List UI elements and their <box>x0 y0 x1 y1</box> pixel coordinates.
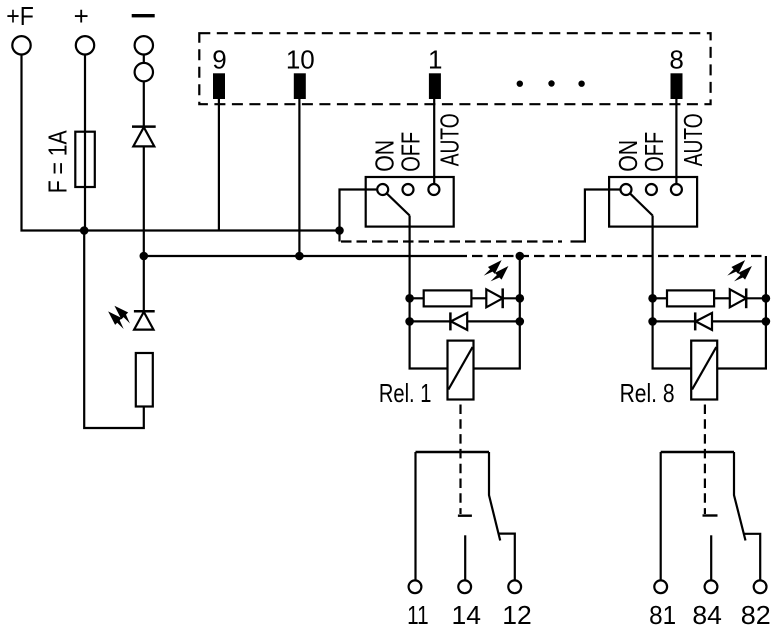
wire pin 8 to AUTO contact <box>675 99 677 186</box>
svg-text:81: 81 <box>649 600 676 630</box>
node + terminal label <box>74 1 89 31</box>
wire switch S2 feed from dashed rail <box>571 190 620 242</box>
contact seat and wire 12 <box>499 534 515 581</box>
relay coil K8 <box>691 341 717 400</box>
node - terminal label (minus bar) <box>132 14 155 17</box>
diode D4 freewheel Rel8 <box>695 312 712 330</box>
pin 9 label <box>212 45 226 75</box>
switch S2 box <box>609 177 697 227</box>
wire resistor R2 to LED <box>471 297 486 299</box>
pin 9 <box>213 73 225 99</box>
wire Rel8 left branch down to coil <box>653 298 692 368</box>
label OFF S2 <box>639 132 669 172</box>
switch S1 contact circle ON <box>377 184 388 195</box>
resistor R2 <box>424 290 472 306</box>
svg-text:12: 12 <box>502 600 532 630</box>
junction dot Rel1 top on -rail <box>516 252 525 261</box>
contact group Rel1 top bar <box>416 451 490 453</box>
diode D1 reverse-polarity protection <box>132 127 156 147</box>
node +F terminal label <box>6 1 34 31</box>
terminal circle 11 <box>409 580 422 593</box>
label 14 <box>452 600 482 630</box>
label 12 <box>502 600 532 630</box>
wire LED D6 to right node <box>503 297 520 299</box>
wire resistor bottom loop to +rail <box>84 231 144 429</box>
actuator T-bar Rel8 <box>703 514 718 516</box>
junction dot Rel1 right row1 <box>516 294 525 303</box>
terminal +F circle <box>12 36 30 54</box>
wire freewheel diode D2 left lead <box>410 320 451 322</box>
contact seat and wire 82 <box>744 534 760 581</box>
wire diode D4 right lead <box>712 320 766 322</box>
switch S1 box <box>366 177 454 227</box>
svg-text:9: 9 <box>212 45 226 75</box>
LED D5 emission arrows <box>105 302 135 331</box>
junction dot pin 10 <box>295 252 304 261</box>
svg-text:10: 10 <box>286 45 315 75</box>
svg-text:F = 1A: F = 1A <box>43 130 73 194</box>
pin 10 <box>294 73 306 99</box>
switch S1 contact circle OFF <box>403 184 414 195</box>
switch S2 lever <box>629 193 653 216</box>
junction dot -rail start <box>140 252 149 261</box>
junction dot Rel8 left row1 <box>648 294 657 303</box>
switch S2 contact circle AUTO <box>671 184 682 195</box>
wire resistor R3 left lead <box>653 297 667 299</box>
wire pin 9 to +rail <box>218 99 220 231</box>
wire contact 81 drop <box>660 452 662 580</box>
label 81 <box>649 600 676 630</box>
wire -rail solid <box>144 255 467 257</box>
wire +rail dashed continuation <box>341 240 562 242</box>
LED D6 Rel1 indicator <box>486 288 502 308</box>
svg-text:82: 82 <box>741 600 771 630</box>
pin 8 label <box>669 45 683 75</box>
label ON S2 <box>613 140 643 172</box>
wire Rel1 right branch from -rail to coil <box>474 256 520 369</box>
wire pin 10 to -rail <box>298 99 300 256</box>
svg-text:+F: +F <box>6 1 34 31</box>
contact blade Rel8 <box>734 452 746 541</box>
terminal circle 84 <box>705 580 718 593</box>
junction dot Rel8 right row2 <box>762 317 771 326</box>
junction dot Rel8 right row1 <box>762 294 771 303</box>
wire - terminal down through diode and LED to resistor <box>143 45 145 311</box>
terminal - circle lower <box>135 63 153 81</box>
relay coil K1 <box>448 341 474 400</box>
wire LED D7 to right node <box>746 297 766 299</box>
terminal circle 12 <box>508 580 521 593</box>
actuator T-bar Rel1 <box>458 515 472 517</box>
contact group Rel8 top bar <box>661 451 734 453</box>
label Rel. 1 <box>379 378 432 408</box>
value label F = 1A <box>43 130 73 194</box>
resistor R1 <box>136 353 153 407</box>
wire +F supply rail (+24V horizontal rail) <box>22 45 340 230</box>
terminal + circle <box>76 36 94 54</box>
switch S2 contact circle ON <box>621 184 632 195</box>
LED D6 emission arrows <box>482 257 512 286</box>
terminal circle 14 <box>458 580 471 593</box>
junction dot Rel1 left row1 <box>405 294 414 303</box>
label Rel. 8 <box>620 378 675 408</box>
terminal circle 82 <box>754 580 767 593</box>
svg-text:+: + <box>74 1 89 31</box>
svg-text:11: 11 <box>407 600 429 630</box>
pin 10 label <box>286 45 315 75</box>
terminal circle 81 <box>654 580 667 593</box>
junction dot switch 1 feed <box>335 226 344 235</box>
wire diode D2 right lead <box>467 320 520 322</box>
svg-text:1: 1 <box>428 45 442 75</box>
wire contact 84 stub <box>710 535 712 580</box>
junction dot +rail / fuse <box>80 226 89 235</box>
svg-text:OFF: OFF <box>396 132 426 172</box>
wire dashed actuator link Rel8 <box>704 405 706 515</box>
label 82 <box>741 600 771 630</box>
junction dot Rel8 left row2 <box>648 317 657 326</box>
svg-text:84: 84 <box>692 600 722 630</box>
fuse F1 <box>75 132 95 187</box>
wire contact 11 drop <box>414 452 416 580</box>
wire +rail drop to dashed rail <box>338 231 340 242</box>
wire resistor R2 left lead <box>410 297 424 299</box>
pin 1 <box>429 73 441 99</box>
svg-text:Rel. 1: Rel. 1 <box>379 378 432 408</box>
terminal - circle upper <box>135 36 153 54</box>
wire freewheel diode D4 left lead <box>653 320 696 322</box>
LED D7 Rel8 indicator <box>730 288 746 308</box>
label 84 <box>692 600 722 630</box>
label AUTO S1 <box>435 113 465 166</box>
svg-text:8: 8 <box>669 45 683 75</box>
label OFF S1 <box>396 132 426 172</box>
svg-text:AUTO: AUTO <box>435 113 465 166</box>
wire switch S2 output down <box>651 216 653 299</box>
wire -rail corner down to Rel8 <box>765 256 767 298</box>
contact blade Rel1 <box>489 452 500 541</box>
connector dashed box <box>199 33 710 104</box>
LED D5 power indicator <box>134 311 155 329</box>
wire pin 1 to AUTO contact <box>433 99 435 186</box>
diode D2 freewheel Rel1 <box>450 312 467 330</box>
label AUTO S2 <box>678 113 708 166</box>
switch S1 contact circle AUTO <box>428 184 439 195</box>
svg-text:Rel. 8: Rel. 8 <box>620 378 675 408</box>
wire + terminal down through fuse to rail <box>84 45 86 230</box>
switch S1 lever <box>386 193 410 216</box>
ellipsis dots between pins <box>517 80 585 87</box>
resistor R3 <box>667 290 714 306</box>
LED D7 emission arrows <box>725 257 755 286</box>
label 11 <box>407 600 429 630</box>
svg-text:AUTO: AUTO <box>678 113 708 166</box>
junction dot Rel1 right row2 <box>516 317 525 326</box>
pin 8 <box>671 73 683 99</box>
svg-text:OFF: OFF <box>639 132 669 172</box>
label ON S1 <box>370 140 400 172</box>
svg-text:14: 14 <box>452 600 482 630</box>
wire resistor R3 to LED <box>714 297 730 299</box>
wire Rel8 right branch down to coil <box>718 298 766 368</box>
wire switch S1 feed from +rail <box>340 190 377 231</box>
junction dot Rel1 left row2 <box>405 317 414 326</box>
wire dashed actuator link Rel1 <box>459 405 461 515</box>
wire contact 14 stub <box>464 535 466 580</box>
wire switch S1 output down <box>409 216 411 299</box>
wire Rel1 left branch down to coil <box>410 298 448 368</box>
switch S2 contact circle OFF <box>646 184 657 195</box>
pin 1 label <box>428 45 442 75</box>
wire -rail dashed continuation <box>467 255 766 257</box>
